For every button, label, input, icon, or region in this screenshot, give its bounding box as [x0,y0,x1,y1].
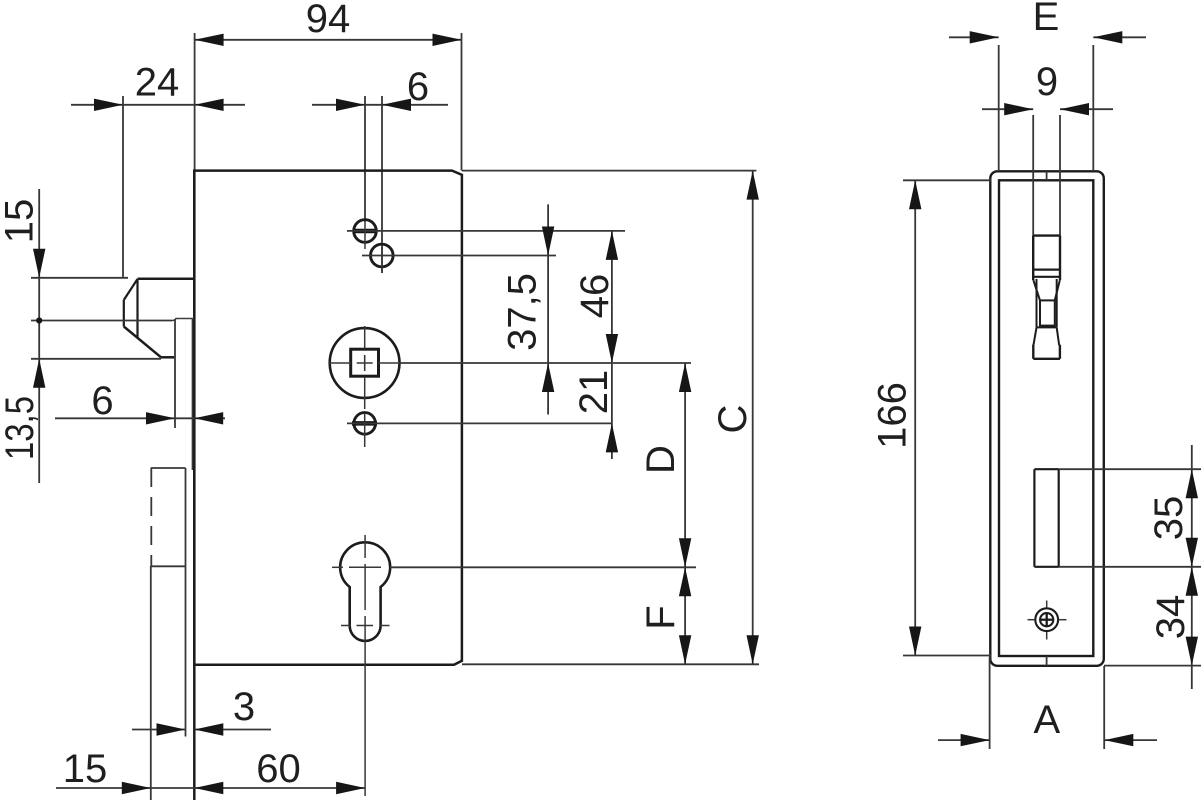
svg-text:35: 35 [1147,496,1191,541]
svg-text:94: 94 [306,0,351,41]
svg-text:46: 46 [573,274,617,319]
svg-text:60: 60 [256,747,301,791]
hole 2 [371,244,394,267]
svg-text:D: D [639,445,683,474]
svg-text:6: 6 [407,65,429,109]
dim 46 / 21 [611,231,613,459]
hole 3 [354,413,376,435]
dims 35 / 34 [1191,445,1193,689]
dim 6 top [364,96,366,222]
svg-text:C: C [711,405,755,434]
faceplate edge [193,171,196,800]
svg-text:21: 21 [572,370,616,415]
dim E [998,45,1000,171]
dims 15 / 60 bottom [56,787,365,789]
follower [330,328,400,398]
svg-text:9: 9 [1036,60,1058,104]
dim D [684,363,686,567]
svg-text:37,5: 37,5 [501,273,545,351]
svg-text:3: 3 [233,685,255,729]
svg-text:15: 15 [0,199,42,244]
dim 6 left [55,417,225,419]
dim 24 [122,96,124,279]
ext to bottom dim [364,658,366,796]
dim 37,5 [547,204,549,414]
exts D F C [400,362,691,364]
svg-text:15: 15 [63,747,108,791]
svg-text:6: 6 [91,379,113,423]
latch bolt [138,278,195,281]
dim A [989,657,991,749]
screw hole [1035,608,1058,631]
dim 166 [903,179,991,181]
slot side view [1033,469,1035,567]
dim 3 [132,729,186,731]
cylinder hole [340,542,390,641]
svg-text:E: E [1033,0,1060,39]
dim 15 / 13,5 left [31,277,128,279]
dim 94 [194,33,196,171]
lock body [194,171,462,665]
latch bolt side [1033,234,1060,236]
dim 9 [1032,115,1034,236]
hole 1 [354,220,377,243]
svg-text:13,5: 13,5 [0,396,42,460]
svg-text:34: 34 [1149,595,1193,640]
svg-text:F: F [639,605,683,629]
dim F [684,567,686,664]
dim C [752,171,754,665]
svg-text:166: 166 [871,382,915,449]
side view case [990,171,1104,666]
latch centerline [31,320,172,322]
faceplate strip lower [150,468,152,566]
svg-text:A: A [1033,698,1060,742]
svg-text:24: 24 [135,61,180,105]
